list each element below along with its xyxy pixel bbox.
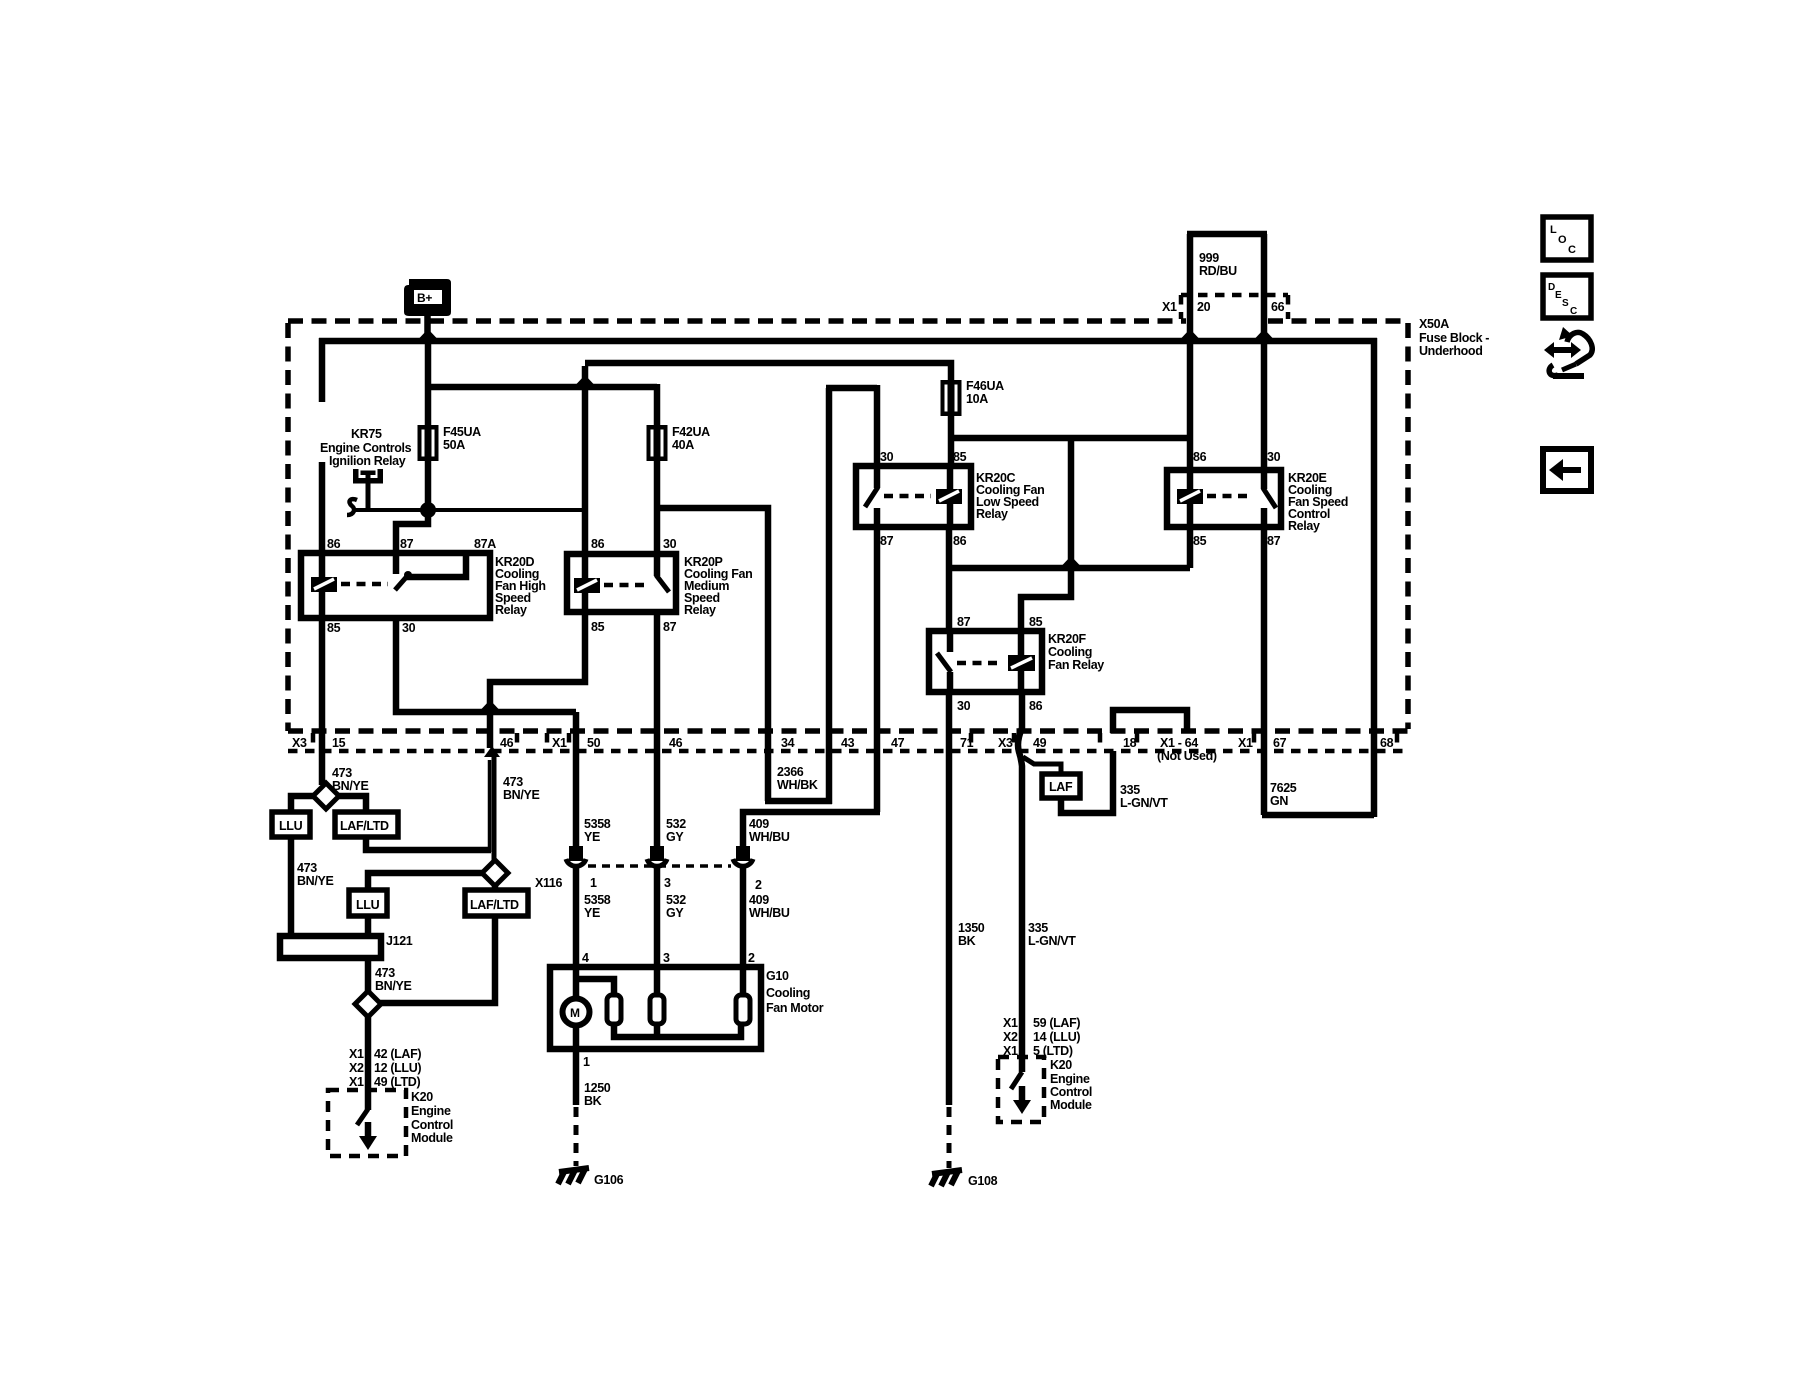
- connector X116 pin3 symbol: [647, 846, 667, 866]
- svg-text:5358: 5358: [584, 817, 611, 831]
- icon swap arrows: [1544, 327, 1592, 376]
- svg-text:Cooling: Cooling: [766, 986, 810, 1000]
- wire bus1 (main B+ feed bus): [319, 338, 1377, 345]
- svg-text:D: D: [1548, 282, 1555, 293]
- node junction arrow at B+/F45UA on bus1: [419, 329, 437, 339]
- motor resistor capsule 1: [607, 995, 621, 1024]
- relay KR20P coil: [574, 554, 600, 612]
- wire 999 box top: [1187, 231, 1267, 238]
- relay KR20C coil: [936, 466, 962, 527]
- battery B+ symbol: [404, 279, 451, 316]
- motor internal branch pin4 to resistor1: [576, 979, 614, 997]
- wire X116 pin1 to motor pin4: [573, 868, 580, 1000]
- relay KR20P coil dashes: [604, 583, 650, 588]
- svg-text:F46UA: F46UA: [966, 379, 1004, 393]
- svg-text:86: 86: [953, 534, 967, 548]
- connector row separators: [313, 733, 1397, 750]
- svg-text:LAF: LAF: [1049, 780, 1073, 794]
- relay KR20P switch lever: [656, 554, 669, 592]
- svg-text:X3: X3: [292, 736, 307, 750]
- svg-text:RD/BU: RD/BU: [1199, 264, 1237, 278]
- wire KR20F-30 down through pin71 (1350 BK): [946, 690, 953, 1105]
- label K20 Engine Control Module right: [1050, 1058, 1092, 1112]
- svg-text:50A: 50A: [443, 438, 465, 452]
- icon back arrow box: [1543, 449, 1591, 491]
- svg-text:4: 4: [582, 951, 589, 965]
- svg-text:43: 43: [841, 736, 855, 750]
- splice diamond on 473 at X116 level: [482, 860, 508, 886]
- svg-text:J121: J121: [386, 934, 413, 948]
- wire dashed to G106: [574, 1107, 579, 1166]
- svg-text:L-GN/VT: L-GN/VT: [1120, 796, 1168, 810]
- splice diamond on 473 below pin15: [313, 783, 339, 809]
- wire KR20C-87 down through pin47: [874, 524, 881, 812]
- fuse block X50A dashed border right edge: [1405, 323, 1411, 729]
- wire KR20P-85 jog down to pin46: [490, 615, 585, 748]
- K20 left internal switch and arrow: [357, 1090, 377, 1150]
- icon LOC box: [1543, 217, 1591, 260]
- svg-text:42 (LAF): 42 (LAF): [374, 1047, 421, 1061]
- svg-text:59 (LAF): 59 (LAF): [1033, 1016, 1080, 1030]
- node junction arrow at pin20 column on bus1: [1181, 329, 1199, 339]
- svg-text:M: M: [570, 1006, 580, 1020]
- svg-text:Underhood: Underhood: [1419, 344, 1483, 358]
- svg-text:YE: YE: [584, 830, 600, 844]
- svg-text:67: 67: [1273, 736, 1287, 750]
- wire pin18 hook over to X1-64: [1113, 710, 1187, 733]
- label 7625 GN: [1270, 781, 1297, 808]
- svg-text:532: 532: [666, 893, 686, 907]
- wire bus2: [585, 363, 951, 384]
- svg-text:WH/BK: WH/BK: [777, 778, 818, 792]
- node junction arrow at pin66 column on bus1: [1255, 329, 1273, 339]
- svg-text:335: 335: [1120, 783, 1140, 797]
- svg-text:X116: X116: [535, 876, 563, 890]
- svg-text:34: 34: [781, 736, 795, 750]
- splice diamond above K20: [355, 991, 381, 1017]
- label 999 RD/BU: [1199, 251, 1237, 278]
- splice box LAF/LTD second: [465, 890, 528, 916]
- svg-text:47: 47: [891, 736, 905, 750]
- wire 2366 right leg up through pin43: [826, 388, 833, 804]
- ground G108: [931, 1170, 998, 1188]
- svg-text:BN/YE: BN/YE: [375, 979, 411, 993]
- relay KR20C switch lever: [865, 466, 878, 527]
- wire diamond to LAF/LTD branch: [337, 796, 366, 814]
- wire LLU second down to J121: [365, 916, 372, 936]
- wire KR20D-30 horizontal to pin50 drop: [396, 615, 576, 712]
- svg-text:85: 85: [1029, 615, 1043, 629]
- svg-text:18: 18: [1123, 736, 1137, 750]
- connector row lower dashed line: [288, 749, 1408, 754]
- wire KR20D-85 down through pin15 to splice: [319, 615, 326, 785]
- svg-text:F42UA: F42UA: [672, 425, 710, 439]
- svg-text:O: O: [1558, 234, 1567, 246]
- wire 999 box right leg (pin 66): [1261, 234, 1268, 338]
- motor G10 box: [550, 967, 761, 1049]
- connector X116 pin2 symbol: [733, 846, 753, 866]
- svg-text:7625: 7625: [1270, 781, 1297, 795]
- svg-text:473: 473: [332, 766, 352, 780]
- relay KR20E coil: [1177, 470, 1203, 527]
- svg-text:Engine: Engine: [411, 1104, 451, 1118]
- svg-text:1250: 1250: [584, 1081, 611, 1095]
- connector row pin labels: [292, 736, 1394, 763]
- ground G106: [558, 1168, 624, 1187]
- svg-text:Relay: Relay: [684, 603, 716, 617]
- label 1250 BK: [584, 1081, 611, 1108]
- label 335 L-GN/VT lower: [1028, 921, 1076, 948]
- relay KR20D pin labels: [327, 537, 496, 635]
- svg-text:30: 30: [402, 621, 416, 635]
- svg-text:(Not Used): (Not Used): [1157, 749, 1217, 763]
- wire bus1 left drop to KR20D-86 lower part: [319, 462, 326, 556]
- wire F42UA output to KR20P-30: [654, 459, 661, 556]
- wire LAF/LTD down and right to 473 wire: [366, 837, 491, 850]
- svg-text:Module: Module: [1050, 1098, 1092, 1112]
- relay KR20D switch lever and 87A contact: [395, 553, 466, 590]
- svg-text:X1: X1: [349, 1047, 364, 1061]
- relay KR20E coil dashes: [1207, 494, 1253, 499]
- wire 999 box left leg (pin 20): [1187, 234, 1194, 338]
- svg-text:S: S: [1562, 298, 1569, 309]
- svg-text:X1: X1: [349, 1075, 364, 1089]
- splice box LAF: [1042, 774, 1080, 798]
- wire dashed to G108: [947, 1107, 952, 1168]
- node arrow below pin46: [484, 746, 500, 757]
- label KR20P Cooling Fan Medium Speed Relay: [684, 555, 752, 617]
- relay KR20C coil dashes: [884, 494, 931, 499]
- svg-text:Fuse Block -: Fuse Block -: [1419, 331, 1489, 345]
- svg-text:LAF/LTD: LAF/LTD: [340, 819, 389, 833]
- label 532 GY upper: [666, 817, 686, 844]
- icon DESC box: [1543, 275, 1591, 318]
- label 473 BN/YE below pin15: [332, 766, 368, 793]
- svg-text:2366: 2366: [777, 765, 804, 779]
- svg-text:46: 46: [669, 736, 683, 750]
- wire 2366 upper segment F42UA column to pin34 drop: [657, 508, 768, 801]
- relay KR20F pin labels: [957, 615, 1043, 713]
- svg-text:30: 30: [957, 699, 971, 713]
- svg-text:87: 87: [400, 537, 414, 551]
- wire KR20E-86 column from bus1: [1187, 338, 1194, 472]
- wire F45UA output down to junction dot: [425, 458, 432, 512]
- module K20 right dashed box: [998, 1057, 1044, 1122]
- connector row upper dashed line: [288, 728, 1408, 734]
- svg-text:WH/BU: WH/BU: [749, 906, 790, 920]
- svg-text:5358: 5358: [584, 893, 611, 907]
- svg-text:X1: X1: [1162, 300, 1177, 314]
- splice pack J121 bar: [280, 936, 381, 958]
- motor resistor capsule 2: [650, 995, 664, 1024]
- svg-text:X2: X2: [1003, 1030, 1018, 1044]
- wire KR20P-86 column from bus2: [582, 366, 589, 556]
- svg-text:2: 2: [755, 878, 762, 892]
- motor resistor capsule 3: [736, 995, 750, 1024]
- svg-text:X1: X1: [1238, 736, 1253, 750]
- wire bus1 left drop to KR20D-86 upper part: [319, 338, 326, 402]
- connector X116 pin1 symbol: [566, 846, 586, 866]
- svg-text:87: 87: [1267, 534, 1281, 548]
- svg-text:LAF/LTD: LAF/LTD: [470, 898, 519, 912]
- relay KR20P pin labels: [591, 537, 677, 634]
- wire KR20E-85 stub from relay to y568: [1187, 525, 1194, 568]
- wire KR20E-30 column from bus1: [1261, 338, 1268, 472]
- svg-text:X2: X2: [349, 1061, 364, 1075]
- svg-text:X1: X1: [552, 736, 567, 750]
- relay KR20F box: [929, 631, 1042, 692]
- wire X116 pin2 to motor pin2: [740, 868, 747, 997]
- wire F45UA column from bus1: [425, 341, 432, 427]
- svg-text:87: 87: [957, 615, 971, 629]
- svg-text:LLU: LLU: [279, 819, 303, 833]
- node junction arrow at x1071 on y568: [1062, 556, 1080, 566]
- fuse block X50A dashed border top edge right part: [1268, 318, 1408, 324]
- svg-text:X1: X1: [1003, 1016, 1018, 1030]
- relay KR20F coil: [1008, 631, 1035, 692]
- svg-text:87A: 87A: [474, 537, 496, 551]
- wire 2366 loop bottom: [765, 798, 832, 805]
- wire 2366 top horizontal to KR20C-30: [826, 385, 877, 392]
- label 473 BN/YE below J121: [375, 966, 411, 993]
- svg-text:G10: G10: [766, 969, 789, 983]
- svg-text:X1 - 64: X1 - 64: [1160, 736, 1198, 750]
- label KR75 Engine Controls Ignition Relay: [320, 427, 412, 468]
- label pin table left X1 42 LAF X2 12 LLU X1 49 LTD: [349, 1047, 421, 1089]
- wire F46UA output to KR20C-85: [948, 412, 955, 468]
- svg-text:49: 49: [1033, 736, 1047, 750]
- wire KR20P-87 down through pin46 to X116 pin3: [654, 615, 661, 850]
- svg-text:86: 86: [1029, 699, 1043, 713]
- svg-text:BN/YE: BN/YE: [332, 779, 368, 793]
- svg-text:49 (LTD): 49 (LTD): [374, 1075, 420, 1089]
- wire M to motor pin1: [573, 1026, 580, 1105]
- label 409 WH/BU lower: [749, 893, 790, 920]
- svg-text:LLU: LLU: [356, 898, 380, 912]
- relay KR75 symbol: [347, 469, 383, 515]
- svg-text:WH/BU: WH/BU: [749, 830, 790, 844]
- svg-text:15: 15: [332, 736, 346, 750]
- label 5358 YE lower: [584, 893, 611, 920]
- fuse F42UA: [647, 425, 668, 461]
- wire KR20F-86 down through pin49 to K20 (335 L-GN/VT): [1018, 690, 1022, 1072]
- label 409 WH/BU upper: [749, 817, 790, 844]
- svg-text:Relay: Relay: [1288, 519, 1320, 533]
- svg-text:Module: Module: [411, 1131, 453, 1145]
- svg-text:Control: Control: [411, 1118, 453, 1132]
- fuse F46UA: [941, 380, 962, 416]
- wire jog from F45UA junction to KR20D-87: [396, 510, 428, 556]
- svg-text:87: 87: [880, 534, 894, 548]
- wire branch pin49 to LAF box: [1023, 757, 1061, 776]
- svg-text:X3: X3: [998, 736, 1013, 750]
- svg-text:999: 999: [1199, 251, 1219, 265]
- splice box LAF/LTD first: [335, 812, 398, 837]
- svg-text:Relay: Relay: [976, 507, 1008, 521]
- label 473 BN/YE below pin46: [503, 775, 539, 802]
- label 1350 BK: [958, 921, 985, 948]
- label F42UA 40A: [672, 425, 710, 452]
- label 335 L-GN/VT upper: [1120, 783, 1168, 810]
- wire y438 horizontal F46UA column to KR20E-86: [951, 435, 1190, 442]
- label X116 and pins 1 3 2: [535, 876, 762, 892]
- wire 409 jog from pin47 column to X116 pin2: [743, 812, 880, 850]
- svg-text:30: 30: [880, 450, 894, 464]
- wire diamond to LLU branch: [291, 796, 315, 814]
- svg-text:KR75: KR75: [351, 427, 382, 441]
- svg-text:BN/YE: BN/YE: [503, 788, 539, 802]
- fuse block X50A dashed border left edge: [285, 323, 291, 731]
- svg-text:20: 20: [1197, 300, 1211, 314]
- svg-text:Fan Motor: Fan Motor: [766, 1001, 824, 1015]
- svg-text:473: 473: [375, 966, 395, 980]
- relay KR20F coil dashes: [957, 661, 1003, 666]
- svg-text:86: 86: [1193, 450, 1207, 464]
- svg-text:B+: B+: [417, 291, 432, 305]
- node junction arrow at x490 on y712: [481, 700, 499, 710]
- svg-text:40A: 40A: [672, 438, 694, 452]
- svg-text:G106: G106: [594, 1173, 624, 1187]
- svg-text:532: 532: [666, 817, 686, 831]
- svg-text:L: L: [1550, 224, 1557, 236]
- svg-text:85: 85: [1193, 534, 1207, 548]
- svg-text:30: 30: [1267, 450, 1281, 464]
- relay KR20D coil: [311, 553, 337, 618]
- motor resistor tie bar: [614, 1024, 741, 1037]
- relay KR20E switch lever: [1263, 470, 1276, 527]
- svg-text:71: 71: [960, 736, 974, 750]
- relay KR20D coil dashes: [341, 582, 388, 587]
- label 532 GY lower: [666, 893, 686, 920]
- svg-text:3: 3: [663, 951, 670, 965]
- svg-text:68: 68: [1380, 736, 1394, 750]
- svg-text:C: C: [1570, 306, 1577, 317]
- svg-text:1: 1: [590, 876, 597, 890]
- label 473 BN/YE left mid: [297, 861, 333, 888]
- wire J121 output down: [365, 958, 372, 993]
- wire LAF/LTD second down to diamond level: [379, 916, 495, 1003]
- wire 7625 left leg KR20E-87 down through pin67: [1261, 525, 1268, 815]
- svg-text:F45UA: F45UA: [443, 425, 481, 439]
- svg-text:C: C: [1568, 244, 1576, 256]
- svg-text:Engine: Engine: [1050, 1072, 1090, 1086]
- relay KR20E box: [1167, 470, 1281, 527]
- svg-text:66: 66: [1271, 300, 1285, 314]
- svg-text:G108: G108: [968, 1174, 998, 1188]
- svg-text:50: 50: [587, 736, 601, 750]
- node junction arrow at x585 on bus3: [576, 375, 594, 385]
- label 2366 WH/BK: [777, 765, 818, 792]
- connector X116 dashed line: [588, 864, 731, 868]
- splice box LLU first: [272, 812, 310, 837]
- svg-text:Engine Controls: Engine Controls: [320, 441, 412, 455]
- label K20 Engine Control Module left: [411, 1090, 453, 1145]
- label KR20E Cooling Fan Speed Control Relay: [1288, 471, 1348, 533]
- wire KR20C-86 down through KR20F-87: [946, 525, 953, 633]
- wire pin50 column down to X116 pin1: [573, 712, 580, 850]
- svg-text:1: 1: [583, 1055, 590, 1069]
- connector X1 pins 20/66 dashed box: [1181, 295, 1288, 319]
- svg-text:3: 3: [664, 876, 671, 890]
- svg-text:409: 409: [749, 817, 769, 831]
- svg-text:1350: 1350: [958, 921, 985, 935]
- wire diamond bottom to LAF/LTD second: [492, 884, 499, 892]
- svg-text:473: 473: [297, 861, 317, 875]
- svg-text:409: 409: [749, 893, 769, 907]
- relay KR20F switch lever: [937, 631, 951, 692]
- wire 473 from pin46 down to splice diamond: [492, 755, 497, 860]
- svg-text:BN/YE: BN/YE: [297, 874, 333, 888]
- svg-text:87: 87: [663, 620, 677, 634]
- svg-text:X50A: X50A: [1419, 317, 1449, 331]
- svg-text:335: 335: [1028, 921, 1048, 935]
- fuse F45UA: [418, 425, 439, 461]
- motor pin labels 4 3 2: [582, 951, 755, 965]
- svg-text:Cooling: Cooling: [1048, 645, 1092, 659]
- svg-text:85: 85: [591, 620, 605, 634]
- label X1 20 66: [1162, 300, 1285, 314]
- label F45UA 50A: [443, 425, 481, 452]
- svg-text:Relay: Relay: [495, 603, 527, 617]
- svg-text:10A: 10A: [966, 392, 988, 406]
- node junction dot at F45UA output / KR75 line: [420, 502, 436, 518]
- svg-text:46: 46: [500, 736, 514, 750]
- label 5358 YE upper: [584, 817, 611, 844]
- wire bus3 from F45UA column to F42UA: [428, 384, 657, 391]
- svg-text:GN: GN: [1270, 794, 1288, 808]
- svg-text:85: 85: [953, 450, 967, 464]
- svg-text:KR20F: KR20F: [1048, 632, 1087, 646]
- svg-text:14 (LLU): 14 (LLU): [1033, 1030, 1080, 1044]
- svg-text:30: 30: [663, 537, 677, 551]
- label X50A Fuse Block - Underhood: [1419, 317, 1489, 358]
- wire LLU down to J121: [288, 837, 295, 941]
- svg-text:K20: K20: [411, 1090, 433, 1104]
- svg-text:GY: GY: [666, 830, 684, 844]
- wire diamond down to K20: [365, 1015, 372, 1090]
- wire F42UA column from bus3: [654, 384, 661, 427]
- wire x1071 vertical from y438 down to KR20F-85 jog: [1021, 435, 1071, 633]
- wire KR75 line to KR20P-86 column: [356, 508, 585, 512]
- svg-text:Ignilion Relay: Ignilion Relay: [329, 454, 406, 468]
- wire 7625 right leg / bus1 right drop through pin68: [1371, 338, 1378, 817]
- label KR20F Cooling Fan Relay: [1048, 632, 1104, 672]
- wire y568 horizontal KR20C-86 to KR20E-85: [949, 565, 1190, 572]
- relay KR20P box: [567, 554, 676, 612]
- motor M circle: [563, 999, 590, 1026]
- splice box LLU second: [349, 890, 387, 916]
- svg-text:BK: BK: [584, 1094, 602, 1108]
- wire LAF box to pin18: [1061, 751, 1113, 813]
- svg-text:YE: YE: [584, 906, 600, 920]
- module K20 left dashed box: [328, 1090, 406, 1156]
- relay KR20C pin labels: [880, 450, 967, 548]
- svg-text:E: E: [1555, 290, 1562, 301]
- wire diamond left branch to LLU second: [368, 873, 484, 892]
- svg-text:L-GN/VT: L-GN/VT: [1028, 934, 1076, 948]
- wire X116 pin3 to motor pin3: [654, 868, 661, 997]
- svg-text:BK: BK: [958, 934, 976, 948]
- label G10 Cooling Fan Motor: [766, 969, 824, 1015]
- label pin table right X1 59 LAF X2 14 LLU X1 5 LTD: [1003, 1016, 1080, 1058]
- wire B+ stem: [424, 314, 431, 341]
- svg-text:Fan Relay: Fan Relay: [1048, 658, 1104, 672]
- svg-text:473: 473: [503, 775, 523, 789]
- svg-text:12 (LLU): 12 (LLU): [374, 1061, 421, 1075]
- label F46UA 10A: [966, 379, 1004, 406]
- wire 7625 bottom: [1262, 812, 1374, 819]
- svg-text:85: 85: [327, 621, 341, 635]
